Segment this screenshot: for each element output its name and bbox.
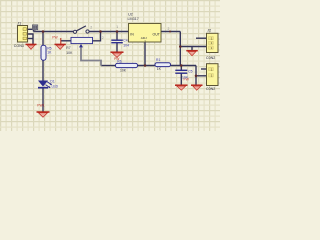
svg-text:10K: 10K [66, 51, 73, 55]
svg-text:PW: PW [52, 35, 58, 39]
svg-text:2: 2 [168, 27, 170, 31]
svg-text:R6: R6 [117, 60, 121, 64]
svg-text:OUT: OUT [153, 33, 161, 37]
svg-text:1K: 1K [47, 51, 52, 55]
svg-text:C4: C4 [123, 38, 127, 42]
svg-text:2: 2 [90, 25, 92, 29]
svg-text:LM317: LM317 [128, 17, 139, 21]
svg-text:IN: IN [130, 33, 134, 37]
svg-text:10K: 10K [120, 68, 127, 72]
svg-text:104: 104 [182, 75, 188, 79]
svg-text:PW1: PW1 [37, 104, 44, 108]
svg-text:J1: J1 [17, 22, 21, 26]
svg-text:J2: J2 [207, 29, 211, 33]
svg-text:CON3: CON3 [14, 44, 24, 48]
svg-text:LED: LED [52, 85, 59, 89]
svg-text:U2: U2 [128, 13, 133, 17]
svg-text:1: 1 [116, 25, 118, 29]
svg-text:R7: R7 [66, 46, 70, 50]
svg-text:1K: 1K [157, 67, 162, 71]
svg-text:104: 104 [123, 44, 129, 48]
svg-text:2: 2 [102, 36, 104, 40]
svg-text:C0N2: C0N2 [206, 87, 215, 91]
svg-text:R1: R1 [156, 58, 160, 62]
svg-text:C5: C5 [188, 69, 192, 73]
svg-text:C0N2: C0N2 [206, 56, 215, 60]
svg-text:D1: D1 [50, 79, 54, 83]
